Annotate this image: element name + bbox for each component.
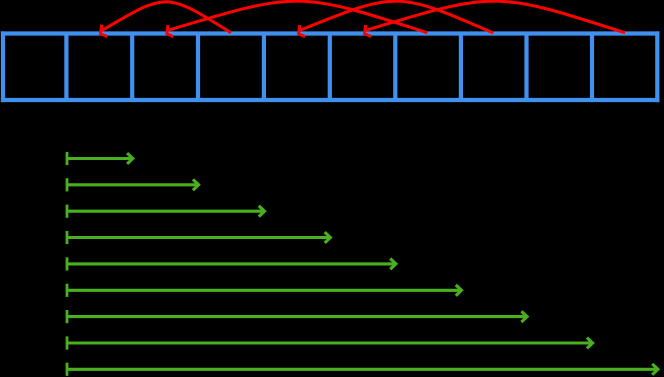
arc cell7 to cell3: [169, 1, 428, 33]
vertical line 8: [524, 34, 528, 101]
vertical line 6: [393, 34, 397, 101]
vertical line 0 (left border): [1, 31, 5, 102]
red jump arcs above the table: [101, 1, 626, 36]
arc cell8 to cell5: [300, 1, 493, 33]
green prefix-range arrows: [67, 152, 658, 376]
range arrow 4: [67, 231, 331, 244]
vertical line 7: [459, 34, 463, 101]
range arrow 5: [67, 257, 396, 270]
range arrow 6: [67, 284, 462, 297]
range arrow 9: [67, 363, 658, 376]
arc cell4 to cell2: [102, 2, 231, 33]
range arrow 8: [67, 336, 593, 349]
range arrow 2: [67, 178, 199, 191]
vertical line 1: [64, 34, 68, 101]
range arrow 3: [67, 205, 265, 218]
bottom border: [1, 98, 660, 102]
vertical line 3: [196, 34, 200, 101]
arrowhead at cell5: [299, 25, 306, 36]
arrowhead at cell2: [101, 25, 108, 37]
range arrow 7: [67, 310, 527, 323]
arrowhead at cell3: [167, 25, 174, 36]
vertical line 9: [590, 34, 594, 101]
vertical line 2: [130, 34, 134, 101]
arc cell10 to cell6: [366, 1, 625, 33]
vertical line 5: [328, 34, 332, 101]
vertical line 4: [262, 34, 266, 101]
vertical line 10 (right border): [655, 31, 659, 102]
array table of 10 cells: [1, 31, 660, 102]
top border: [1, 31, 660, 35]
range arrow 1: [67, 152, 133, 165]
arrowhead at cell6: [365, 25, 372, 36]
